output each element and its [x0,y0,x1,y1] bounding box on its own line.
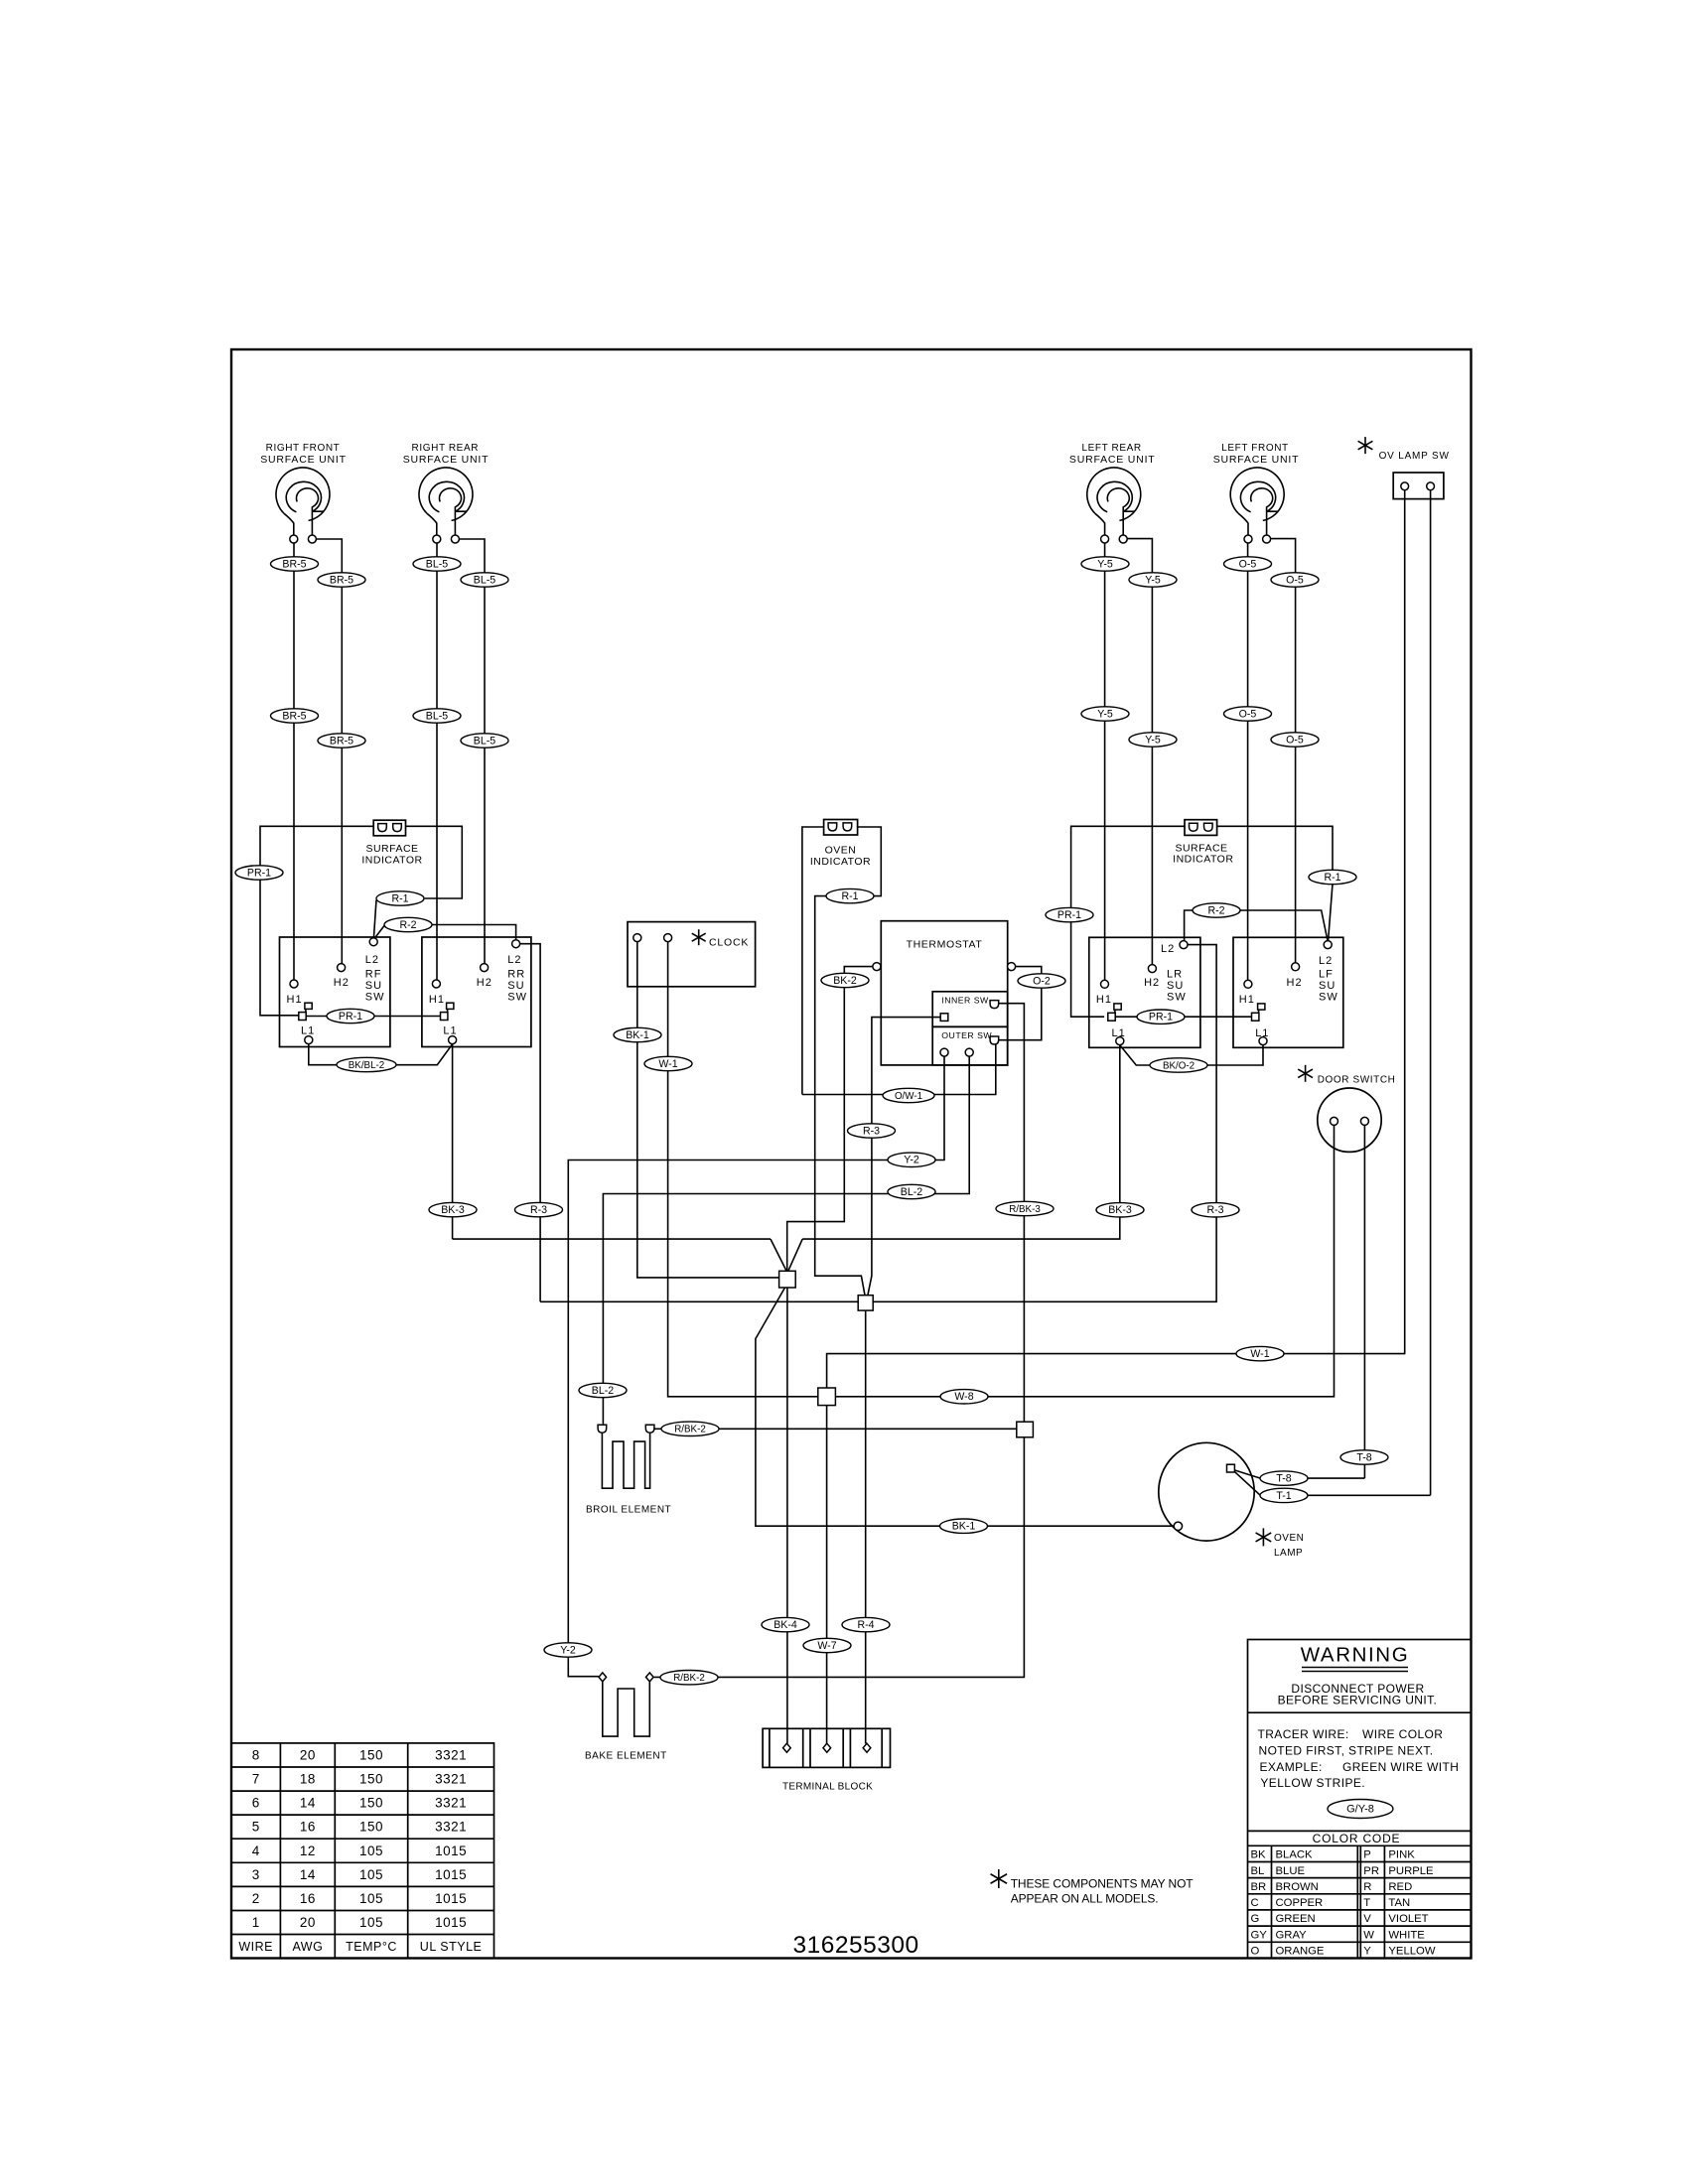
color code row GY / W [1251,1929,1426,1941]
label Y-5 (LR H2 wire lower) [1129,733,1177,747]
label O-5 (LF H2 wire upper) [1271,573,1319,587]
wire BK-1 from junction J1 diagonal to oven lamp [756,1288,1174,1526]
svg-text:16: 16 [300,1891,316,1906]
surface indicator (left) box [373,820,405,836]
LR L1 switch contact [1108,1004,1121,1021]
svg-text:L2: L2 [507,954,521,966]
svg-text:BK/O-2: BK/O-2 [1163,1060,1195,1071]
svg-text:RIGHT FRONT: RIGHT FRONT [266,443,341,454]
svg-text:150: 150 [359,1820,383,1835]
label W-1 (clock wire) [644,1056,692,1070]
label PR-1 (LR-LF L1 wire) [1137,1010,1185,1024]
border frame [231,349,1472,1959]
svg-text:105: 105 [359,1915,383,1930]
svg-text:GY: GY [1251,1929,1268,1941]
wire gauge table [231,1743,494,1959]
svg-text:BL-2: BL-2 [901,1186,922,1198]
svg-text:105: 105 [359,1891,383,1906]
svg-text:6: 6 [252,1796,260,1811]
label O-5 (LF H1 wire lower) [1224,707,1272,721]
label W-1 (oven lamp switch wire) [1236,1346,1284,1360]
svg-text:P: P [1363,1849,1371,1861]
svg-text:W-1: W-1 [658,1058,677,1070]
wire BK/O-2 from LR L1 to LF L1 [1120,1045,1263,1065]
label R/BK-3 (inner switch riser) [996,1201,1054,1215]
svg-text:BL-5: BL-5 [474,735,495,747]
wire R-3 from RR L2 terminal right then down [520,944,541,1302]
svg-text:OVEN: OVEN [1274,1533,1304,1544]
color code row G / V [1251,1913,1429,1925]
svg-text:BL-2: BL-2 [592,1385,614,1397]
svg-text:Y-5: Y-5 [1097,558,1113,570]
label BL-2 (broil wire) [579,1383,627,1397]
svg-text:R: R [1363,1881,1371,1893]
color code row BL / PR [1251,1865,1435,1877]
svg-text:R-3: R-3 [863,1125,880,1137]
svg-text:3321: 3321 [435,1796,467,1811]
svg-text:BR-5: BR-5 [282,558,306,570]
asterisk for oven lamp [1256,1528,1272,1546]
wire R-1 oven indicator right lead [858,827,882,896]
wire W-7 from junction J3 down to terminal block [826,1406,828,1744]
svg-text:316255300: 316255300 [793,1932,919,1959]
RF L1 terminal [305,1036,313,1044]
LF L1 terminal [1259,1037,1267,1045]
svg-text:H2: H2 [334,977,350,989]
svg-text:BEFORE SERVICING UNIT.: BEFORE SERVICING UNIT. [1278,1694,1438,1707]
label R-1 (oven indicator wire) [826,888,874,902]
svg-text:W-8: W-8 [954,1391,973,1403]
svg-text:ORANGE: ORANGE [1276,1946,1325,1958]
color code row BK / P [1251,1849,1416,1861]
wire W-1 from junction J3 up and right to OV LAMP SW [827,1354,1406,1388]
thermostat left terminal [873,963,881,971]
surface indicator (right) box [1185,820,1217,836]
RR H2 terminal [481,964,489,972]
svg-text:SURFACE UNIT: SURFACE UNIT [260,454,347,466]
wire O/W-1 row to thermostat outer switch terminal [802,1044,996,1095]
svg-text:COLOR CODE: COLOR CODE [1313,1832,1401,1845]
oven indicator lamp 1 [828,823,837,831]
door switch right terminal [1360,1117,1368,1125]
svg-text:BL-5: BL-5 [474,574,495,586]
svg-text:3321: 3321 [435,1820,467,1835]
wire R-3 horizontal into junction J2 [540,1300,858,1302]
junction connector J2 (red net) [858,1296,873,1310]
label BK-1 (oven lamp wire) [940,1519,988,1533]
label BK-2 (thermostat wire) [821,973,869,987]
label BK-4 (terminal block wire) [762,1617,809,1631]
svg-text:R/BK-3: R/BK-3 [1009,1204,1041,1215]
svg-text:3321: 3321 [435,1772,467,1787]
svg-text:PR-1: PR-1 [339,1011,362,1023]
bake element heater coil [603,1682,650,1737]
wire table row 4 [252,1843,467,1858]
LF L1 switch contact [1252,1004,1265,1021]
wire PR-1 between LR and LF L1 switches [1115,1016,1252,1018]
svg-text:AWG: AWG [292,1940,323,1954]
thermostat outer switch terminal 2 [965,1048,973,1056]
wire Y-5 from LR T2 jog right and down to LR SU SW H2 [1125,539,1152,965]
svg-text:G/Y-8: G/Y-8 [1346,1803,1374,1815]
OV LAMP SW left terminal [1401,482,1409,490]
LR L2 terminal [1180,941,1188,949]
svg-text:PR: PR [1363,1865,1379,1877]
svg-text:SURFACE UNIT: SURFACE UNIT [1069,454,1156,466]
surface indicator (left) lamp 1 [378,824,387,832]
svg-text:5: 5 [252,1820,260,1835]
svg-text:105: 105 [359,1843,383,1858]
wire R-3 from inner switch terminal down to junction J2 [868,1018,940,1296]
svg-text:WARNING: WARNING [1301,1644,1410,1667]
surface indicator (right) lamp 1 [1190,823,1198,831]
label R-4 (terminal block wire) [842,1617,890,1631]
broil element right terminal [645,1425,654,1433]
RF H1 terminal [290,980,298,988]
label G/Y-8 example [1328,1800,1393,1819]
svg-text:R-2: R-2 [399,919,416,931]
terminal block body [763,1728,890,1767]
svg-text:150: 150 [359,1748,383,1763]
wire BR-5 from RF T1 down to RF SU SW H1 [293,543,295,980]
svg-text:SURFACE UNIT: SURFACE UNIT [1213,454,1300,466]
wire R-4 from junction J2 down to terminal block [865,1310,867,1743]
svg-text:DOOR SWITCH: DOOR SWITCH [1318,1075,1396,1086]
svg-text:PR-1: PR-1 [1057,909,1081,921]
label R-1 (left indicator wire) [376,891,424,905]
svg-text:L2: L2 [1161,943,1175,955]
svg-text:BK-2: BK-2 [833,975,857,987]
label BK/O-2 (LR-LF L1 jumper) [1150,1058,1207,1072]
svg-text:SU: SU [1167,980,1184,992]
svg-text:WIRE: WIRE [238,1940,273,1954]
LF L2 terminal [1324,941,1332,949]
svg-text:RF: RF [365,969,382,981]
svg-text:16: 16 [300,1820,316,1835]
svg-text:14: 14 [300,1867,316,1882]
RR H1 terminal [432,980,440,988]
label BL-5 (RR H1 wire lower) [413,709,461,723]
OV LAMP SW right terminal [1427,482,1435,490]
surface indicator (left) lamp 2 [393,824,402,832]
wire R/BK-3 from inner switch terminal down to junction J4 [998,1004,1024,1422]
svg-text:W-1: W-1 [1250,1348,1269,1360]
thermostat inner switch box [932,992,1008,1027]
label BK-3 (LR L1 wire) [1096,1203,1144,1217]
oven lamp top terminal (square) [1227,1464,1235,1472]
svg-text:20: 20 [300,1915,316,1930]
svg-text:LEFT FRONT: LEFT FRONT [1221,443,1288,454]
svg-text:R-1: R-1 [841,890,858,902]
label T-8 (oven lamp wire) [1260,1471,1308,1485]
svg-text:Y: Y [1363,1946,1371,1958]
label Y-5 (LR H2 wire upper) [1129,573,1177,587]
RF L2 terminal [369,938,377,946]
thermostat inner switch right terminal [990,1001,999,1009]
terminal block terminal 2 [823,1743,831,1752]
label BR-5 (RF H1 wire lower) [271,709,319,723]
label BL-5 (RR H2 wire upper) [461,573,508,587]
wire T-1 from oven lamp terminal to OV LAMP SW lead [1234,1471,1430,1495]
svg-text:SW: SW [1319,992,1338,1004]
svg-text:GRAY: GRAY [1276,1929,1308,1941]
wire BK-3 V diagonal right into junction J1 [788,1239,802,1271]
switch box LR SU SW [1089,937,1200,1047]
surface unit coil LF (left front) [1230,468,1284,543]
svg-text:Y-5: Y-5 [1145,734,1161,746]
svg-text:3: 3 [252,1867,260,1882]
svg-text:L2: L2 [365,954,379,966]
wire PR-1 left surface indicator left lead [260,826,373,1016]
broil element left terminal [598,1425,607,1433]
label Y-2 (outer switch wire) [888,1153,935,1166]
wire BK-1 from clock terminal down to junction J1 [637,942,779,1278]
svg-text:O: O [1251,1946,1260,1958]
svg-text:150: 150 [359,1772,383,1787]
svg-text:BL-5: BL-5 [426,710,448,722]
svg-text:TRACER WIRE:: TRACER WIRE: [1258,1727,1349,1741]
thermostat inner switch left terminal (square) [940,1014,948,1022]
svg-text:20: 20 [300,1748,316,1763]
clock left terminal [633,934,641,942]
wire PR-1 right surface indicator left lead [1071,826,1185,1017]
svg-text:UL STYLE: UL STYLE [420,1940,483,1954]
svg-text:GREEN WIRE WITH: GREEN WIRE WITH [1342,1760,1459,1774]
svg-text:PR-1: PR-1 [247,867,271,879]
svg-text:Y-2: Y-2 [560,1644,576,1656]
color code table grid [1248,1845,1472,1958]
wire W-1 from clock terminal down to W-8 row [668,942,818,1397]
svg-text:150: 150 [359,1796,383,1811]
warning box [1248,1640,1472,1959]
svg-text:BK-4: BK-4 [774,1619,797,1631]
svg-text:OVEN: OVEN [825,845,857,857]
wire BL-5 from RR T2 jog right and down to RR SU SW H2 [459,539,485,964]
terminal block terminal 1 [783,1743,791,1752]
wire R-1 left surface indicator right lead down [406,826,463,898]
bake element right terminal [645,1673,653,1682]
svg-text:BR-5: BR-5 [282,710,306,722]
wire R-2 from ellipse right to LF L2 terminal [1240,910,1328,941]
RR L2 terminal [512,940,520,948]
svg-text:SURFACE: SURFACE [365,843,418,855]
wire table row 5 [252,1820,467,1835]
junction connector J1 (black net) [779,1271,796,1288]
label R-3 (inner switch wire) [848,1124,896,1138]
svg-text:H1: H1 [287,994,303,1006]
wire BL-5 from RR T1 down to RR SU SW H1 [436,543,438,980]
wire T-1 from OV LAMP SW right terminal down to T-1 row [1430,490,1432,1496]
wire table row 3 [252,1867,467,1882]
junction connector J3 (white net) [818,1388,836,1406]
wire R-1 diagonal down to LF L2 terminal [1329,884,1333,940]
label BL-2 (outer switch wire) [888,1184,935,1198]
label R/BK-2 (broil wire) [661,1422,719,1435]
surface indicator (right) lamp 2 [1204,823,1213,831]
switch box RR SU SW [422,937,531,1047]
wire Y-5 from LR T1 down to LR SU SW H1 [1104,543,1106,981]
svg-text:PR-1: PR-1 [1149,1012,1173,1024]
svg-text:7: 7 [252,1772,260,1787]
svg-text:TAN: TAN [1388,1897,1410,1909]
label BK/BL-2 (RF-RR L1 jumper) [337,1057,396,1071]
asterisk for clock [692,929,706,945]
label PR-1 (RF-RR L1 wire) [327,1009,374,1023]
svg-text:BK/BL-2: BK/BL-2 [349,1060,385,1071]
label Y-5 (LR H1 wire lower) [1081,707,1129,721]
label O-5 (LF H2 wire lower) [1271,733,1319,747]
svg-text:RED: RED [1388,1881,1412,1893]
broil element heater coil [602,1433,649,1488]
svg-text:H1: H1 [1096,994,1112,1006]
wire R-3 horizontal from junction J2 to LR L2 riser [873,945,1216,1302]
svg-text:THESE COMPONENTS MAY NOT: THESE COMPONENTS MAY NOT [1011,1877,1195,1891]
wire table row 2 [252,1891,467,1906]
wire BR-5 from RF T2 jog right and down to RF SU SW H2 [316,539,342,964]
svg-text:BROWN: BROWN [1276,1881,1319,1893]
wire table row 8 [252,1748,467,1763]
door switch body [1318,1088,1381,1152]
surface unit coil LR (left rear) [1087,468,1141,543]
label R-1 (right indicator wire) [1309,870,1356,884]
svg-text:OUTER SW: OUTER SW [941,1030,992,1040]
svg-text:BK-3: BK-3 [441,1204,465,1216]
wire O-2 from thermostat right terminal to outer switch [999,967,1042,1040]
wire R/BK-2 from broil element to junction J4 [654,1428,1017,1430]
label BR-5 (RF H2 wire lower) [318,734,365,748]
svg-text:YELLOW STRIPE.: YELLOW STRIPE. [1260,1776,1365,1790]
RF L1 switch contact [299,1003,312,1020]
color code row BR / R [1251,1881,1413,1893]
svg-text:O/W-1: O/W-1 [895,1091,922,1102]
wire R-2 from ellipse left down to LR L2 terminal [1185,910,1193,940]
svg-text:BAKE ELEMENT: BAKE ELEMENT [585,1751,667,1762]
svg-text:L1: L1 [301,1025,315,1037]
svg-text:GREEN: GREEN [1276,1913,1316,1925]
wire BK/BL-2 from RF L1 to RR L1 [309,1044,453,1065]
svg-text:R-3: R-3 [1206,1204,1223,1216]
thermostat outer switch box [932,1026,1008,1065]
wire T-8 to oven lamp terminal [1234,1470,1364,1478]
svg-text:YELLOW: YELLOW [1388,1946,1435,1958]
svg-text:CLOCK: CLOCK [709,936,749,948]
svg-text:L1: L1 [443,1025,457,1037]
wire R-1 oven indicator left lead down to O/W-1 row [802,827,824,1095]
wire R-1 right surface indicator right lead [1217,826,1333,870]
svg-text:EXAMPLE:: EXAMPLE: [1260,1760,1323,1774]
svg-text:PURPLE: PURPLE [1388,1865,1434,1877]
svg-text:O-5: O-5 [1286,734,1304,746]
LR H2 terminal [1148,965,1156,973]
wire table row 6 [252,1796,467,1811]
svg-text:APPEAR ON ALL MODELS.: APPEAR ON ALL MODELS. [1011,1892,1159,1906]
LR L1 terminal [1116,1037,1124,1045]
svg-text:C: C [1251,1897,1259,1909]
svg-text:T-1: T-1 [1276,1490,1291,1502]
label BR-5 (RF H2 wire upper) [318,573,365,587]
wire BK-2 from thermostat left terminal to junction J1 [787,967,877,1272]
asterisk for OV LAMP SW [1358,437,1373,454]
svg-text:4: 4 [252,1843,260,1858]
asterisk for door switch [1298,1065,1313,1082]
svg-text:105: 105 [359,1867,383,1882]
color code row C / T [1251,1897,1411,1909]
LF H1 terminal [1244,980,1252,988]
wire R-1 from ellipse left down to junction J2 [815,896,865,1296]
svg-text:BLACK: BLACK [1276,1849,1314,1861]
svg-text:BR-5: BR-5 [330,574,353,586]
svg-text:LAMP: LAMP [1274,1548,1303,1559]
label BR-5 (RF H1 wire upper) [271,557,319,571]
svg-text:W: W [1363,1929,1374,1941]
svg-text:Y-2: Y-2 [904,1155,919,1166]
svg-text:THERMOSTAT: THERMOSTAT [907,938,983,950]
svg-text:SW: SW [1167,992,1187,1004]
wire table row WIRE [238,1940,482,1954]
label BL-5 (RR H1 wire upper) [413,557,461,571]
svg-text:L2: L2 [1319,955,1333,967]
svg-text:T-8: T-8 [1276,1473,1291,1485]
svg-text:14: 14 [300,1796,316,1811]
svg-text:R/BK-2: R/BK-2 [674,1425,706,1435]
wire W-1 from OV LAMP SW left terminal down to W-1 row [1404,490,1406,1354]
svg-text:3321: 3321 [435,1748,467,1763]
svg-text:8: 8 [252,1748,260,1763]
svg-text:T-8: T-8 [1356,1451,1371,1463]
svg-text:BR-5: BR-5 [330,735,353,747]
svg-text:18: 18 [300,1772,316,1787]
svg-text:G: G [1251,1913,1260,1925]
label R-3 (LR L2 wire) [1192,1203,1239,1217]
svg-text:1015: 1015 [435,1915,467,1930]
svg-text:BL: BL [1251,1865,1265,1877]
svg-text:WHITE: WHITE [1388,1929,1425,1941]
svg-text:1015: 1015 [435,1891,467,1906]
wire T-8 from door switch right terminal down [1363,1126,1365,1479]
svg-text:BK-3: BK-3 [1108,1204,1132,1216]
label R/BK-2 (bake wire) [660,1671,718,1685]
label W-7 (terminal block wire) [803,1638,851,1652]
svg-text:L1: L1 [1255,1027,1269,1039]
svg-text:INDICATOR: INDICATOR [1173,854,1233,866]
oven lamp body [1159,1442,1254,1541]
svg-text:O-5: O-5 [1239,708,1257,720]
svg-text:SURFACE: SURFACE [1175,842,1227,854]
label R-2 (LR to LF L2 wire) [1193,903,1240,917]
svg-text:H1: H1 [429,994,445,1006]
label Y-5 (LR H1 wire upper) [1081,557,1129,571]
asterisk bottom note [991,1869,1008,1888]
wire BK-3 horizontal left part [453,1238,771,1240]
svg-text:Y-5: Y-5 [1097,708,1113,720]
svg-text:INNER SW: INNER SW [941,996,989,1006]
label R-2 (RF to RR L2 wire) [384,917,432,931]
RR L1 terminal [449,1036,457,1044]
thermostat right terminal [1008,963,1016,971]
svg-text:L1: L1 [1112,1027,1126,1039]
svg-text:LR: LR [1167,969,1183,981]
wire W-8 from junction J3 to door switch [835,1126,1334,1397]
svg-text:O-2: O-2 [1033,975,1051,987]
svg-text:R-1: R-1 [391,892,408,904]
svg-text:O-5: O-5 [1286,574,1304,586]
oven indicator box [824,820,858,836]
warning box divider lines [1248,1712,1472,1845]
switch box RF SU SW [280,937,390,1047]
label T-8 (door switch wire) [1340,1450,1388,1464]
label O-5 (LF H1 wire upper) [1224,557,1272,571]
svg-text:WIRE COLOR: WIRE COLOR [1362,1727,1443,1741]
